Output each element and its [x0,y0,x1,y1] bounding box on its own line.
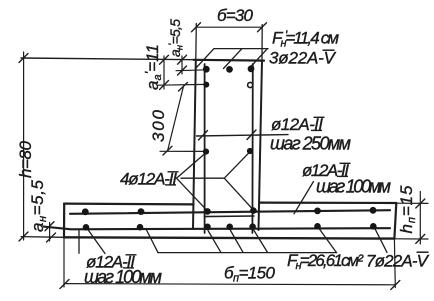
svg-text:бп=150: бп=150 [224,264,276,285]
leader slant to bar 2 [224,49,243,69]
stirrup bottom closing line in stem [205,215,255,218]
stem right outer edge [261,25,263,61]
leader fan 4ø12A-II left: to bottom-left bar [177,178,208,210]
tick [391,281,400,290]
svg-text:шаг 100мм: шаг 100мм [84,267,162,287]
extension line flange top right [396,202,428,204]
dimension h=80 line [23,52,25,240]
tick [179,83,188,92]
leader slant from bar 4 [231,231,244,253]
bar 2 [226,66,233,73]
stirrup tie line at mid stem (leader to ø12A-II шаг 250мм) [197,135,289,136]
leader fan right: to bottom-right bar [224,178,253,209]
tick [178,55,187,64]
leader ø12A-II шаг 100мм (right) [294,182,314,214]
II serif bars (4ø12A-II label) [165,172,179,185]
stirrup tie X tick left [199,131,208,141]
lower flange rebar line (extended left for a_n dim) [44,227,391,230]
leader bottom-left label slant [88,229,106,254]
stem inner right stirrup line [251,64,253,233]
svg-text:7ø22A-V: 7ø22A-V [366,252,430,271]
leader slant from bar 5 [254,231,268,253]
right flange top edge [260,202,397,205]
leader fan connector [181,177,224,179]
flange left edge [63,204,65,238]
leader slant from bar 7 to 7ø22A-V [375,228,388,253]
dimension a_a'=11 line [163,56,165,89]
leader slant from bar 3 [208,231,221,253]
extension line second stem row [158,83,207,86]
svg-text:aa'=11: aa'=11 [142,44,164,90]
extension line flange bottom right [395,238,429,240]
leader slant from bar 2 [147,230,159,253]
dimension b=30 line [196,26,262,28]
dimension 300 line (tilted) [168,87,184,151]
dimension a_n'=5,5 line [181,56,183,74]
svg-text:hп=15: hп=15 [397,185,418,234]
upper flange rebar line [70,210,390,214]
svg-text:aн=5,5: aн=5,5 [28,179,49,232]
stem inner left stirrup line [204,64,206,233]
leader slant to bar 1 [196,49,215,69]
svg-text:б=30: б=30 [217,6,254,25]
tick [19,232,28,241]
flange lower row 7ø22 bars [83,224,90,231]
leader F_n=26,61 horizontal [158,252,337,254]
tick [258,23,267,32]
tick [19,54,28,63]
tick [47,233,56,242]
svg-text:Fн'=11,4 см: Fн'=11,4 см [272,28,339,50]
extension line mid stem row [160,150,206,152]
flange upper row bars [82,208,89,215]
tick [45,222,54,231]
leader slant to bar 3 [249,49,268,69]
overline on V [323,49,335,51]
svg-text:aн'=5,5: aн'=5,5 [167,19,185,57]
svg-text:шаг 250мм: шаг 250мм [270,134,351,154]
tick [163,146,172,155]
top row 3ø22: bar 1 [203,66,210,73]
II serif bars (stirrup label) [311,117,325,130]
mid row left bar [203,149,209,155]
tick [416,199,425,208]
svg-text:h=80: h=80 [16,140,35,178]
leader slant from bar 6 [319,228,337,253]
flange right edge [394,203,396,239]
extension line flange left corner down [63,237,65,287]
leader bottom-left label vertical [78,229,80,253]
tick [192,23,201,32]
second row right hollow bar [248,82,253,87]
tick [60,280,69,289]
mid row right bar [247,148,253,154]
dimension b_p=150 line [64,284,395,285]
left flange top edge [64,203,194,206]
leader 3ø22A-V horizontal [214,48,268,50]
leader fan right: to mid-right bar [224,152,249,178]
stirrup tie X tick right [247,130,256,140]
tick [416,234,425,243]
svg-text:шаг 100мм: шаг 100мм [316,177,391,197]
stem left outer edge [195,24,198,61]
tick [160,81,169,90]
flange bottom edge (extended left to h-dimension) [21,236,64,239]
overline on V [417,251,429,253]
leader fan 4ø12A-II left: to mid-left bar [177,153,207,179]
svg-text:300: 300 [149,109,168,142]
svg-text:3ø22A-V: 3ø22A-V [269,49,337,68]
dimension h_p=15 line [419,192,421,245]
extension line flange right corner down [393,239,396,288]
tick [160,55,169,64]
tick [178,66,187,75]
extension line first stem row [176,69,207,72]
dimension a_n=5,5 line [49,223,51,242]
bar 3 [248,65,255,72]
II serif bars (right flange label) [337,163,351,176]
II serif bars (bottom-left label) [123,255,137,268]
stem top edge (extended left to h-dimension) [21,58,196,60]
second row left bar [203,82,209,88]
